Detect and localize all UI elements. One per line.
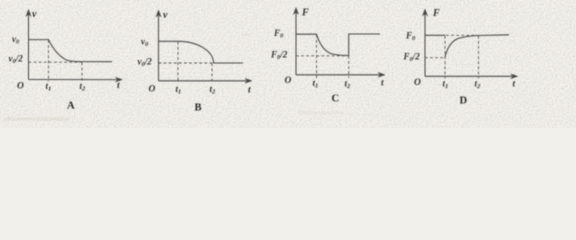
C dashed horizontal at F0/2	[296, 55, 349, 57]
svg-text:C: C	[332, 94, 340, 105]
svg-text:O: O	[414, 78, 421, 88]
C x-axis arrowhead	[378, 72, 385, 77]
B dashed vertical at t2	[211, 63, 213, 83]
D dashed vertical at t2	[478, 36, 480, 79]
svg-text:v0/2: v0/2	[138, 57, 153, 69]
D y-axis arrowhead	[422, 9, 427, 16]
A x-axis arrowhead	[115, 77, 122, 82]
svg-text:O: O	[285, 76, 292, 86]
D F-t curve: flat at F0 to t1	[425, 34, 445, 36]
A dashed horizontal at v0/2	[29, 61, 83, 63]
svg-text:O: O	[17, 82, 24, 92]
faint scan smudge bottom-left	[4, 118, 70, 120]
faint scan smudge right of B top	[243, 34, 250, 36]
D dashed vertical at t1	[444, 36, 446, 79]
svg-text:A: A	[67, 101, 75, 112]
A y-axis	[28, 13, 30, 80]
C F-t curve: flat at F0, decay to F0/2, jump back to F0 at t2	[296, 34, 380, 56]
svg-text:v0/2: v0/2	[9, 54, 24, 66]
svg-text:D: D	[460, 96, 468, 107]
svg-text:t: t	[513, 80, 516, 90]
B dashed vertical at t1	[177, 42, 179, 83]
B y-axis arrowhead	[156, 10, 161, 17]
C y-axis	[295, 11, 297, 75]
svg-text:F: F	[301, 8, 309, 19]
D F-t curve: rise from F0/2 at t1 back to F0 at t2, then flat	[445, 35, 509, 58]
C y-axis arrowhead	[293, 8, 298, 15]
D x-axis	[425, 75, 513, 77]
D dashed horizontal at F0 between t1 and t2	[446, 34, 478, 36]
svg-text:v: v	[163, 10, 168, 21]
B x-axis arrowhead	[245, 78, 252, 83]
svg-text:t: t	[248, 86, 251, 96]
svg-text:t: t	[117, 81, 120, 91]
A v-t curve: flat at v0 then decay to v0/2	[29, 40, 113, 62]
svg-text:O: O	[149, 85, 156, 95]
faint scan smudge below C	[298, 112, 344, 114]
D y-axis	[424, 12, 426, 76]
B dashed horizontal at v0/2	[159, 62, 213, 64]
D x-axis arrowhead	[511, 74, 518, 79]
svg-text:B: B	[195, 103, 202, 114]
A dashed vertical at t1	[48, 40, 50, 82]
svg-text:t: t	[381, 79, 384, 89]
C dashed vertical at t2 below jump	[348, 56, 350, 78]
C dashed vertical at t1	[316, 35, 318, 78]
paper background	[0, 0, 576, 128]
svg-text:v: v	[32, 9, 37, 20]
svg-text:F: F	[432, 8, 440, 19]
C x-axis	[296, 74, 380, 76]
D dashed horizontal at F0/2	[425, 57, 445, 59]
A dashed vertical at t2	[81, 63, 83, 83]
B y-axis	[158, 14, 160, 81]
A x-axis	[29, 79, 119, 81]
A y-axis arrowhead	[26, 10, 31, 17]
B x-axis	[159, 80, 248, 82]
B v-t curve: flat at v0 then circular fall to v0/2	[159, 41, 244, 63]
